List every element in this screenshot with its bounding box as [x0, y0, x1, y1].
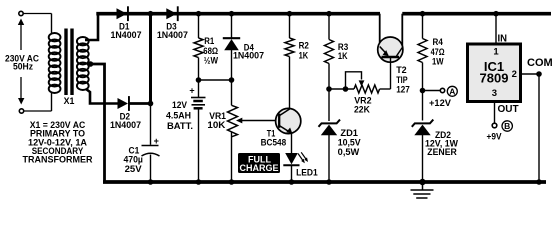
- svg-text:3: 3: [492, 88, 497, 99]
- svg-text:0,5W: 0,5W: [338, 147, 360, 157]
- svg-text:22K: 22K: [354, 104, 370, 114]
- svg-text:A: A: [449, 86, 455, 96]
- svg-text:+: +: [189, 86, 194, 96]
- svg-text:2: 2: [512, 69, 517, 80]
- svg-text:10K: 10K: [207, 120, 226, 130]
- svg-text:B: B: [504, 121, 510, 131]
- svg-text:4.5AH: 4.5AH: [166, 111, 191, 121]
- svg-text:1N4007: 1N4007: [111, 30, 142, 40]
- svg-text:½W: ½W: [204, 56, 219, 66]
- svg-text:TRANSFORMER: TRANSFORMER: [23, 155, 93, 165]
- svg-text:1W: 1W: [432, 57, 444, 67]
- svg-text:X1: X1: [64, 96, 75, 106]
- svg-text:CHARGE: CHARGE: [239, 163, 278, 173]
- svg-text:OUT: OUT: [498, 104, 519, 115]
- svg-text:12V: 12V: [172, 100, 187, 110]
- svg-text:1N4007: 1N4007: [233, 51, 264, 61]
- svg-text:1N4007: 1N4007: [110, 120, 141, 130]
- svg-text:+9V: +9V: [487, 131, 502, 141]
- svg-text:BATT.: BATT.: [167, 121, 193, 131]
- svg-text:7809: 7809: [480, 70, 509, 85]
- svg-text:R1: R1: [204, 36, 214, 46]
- svg-text:68Ω: 68Ω: [203, 46, 218, 56]
- svg-text:+: +: [154, 136, 159, 146]
- svg-text:47Ω: 47Ω: [431, 47, 445, 57]
- svg-text:10,5V: 10,5V: [338, 138, 361, 148]
- svg-text:ZENER: ZENER: [427, 147, 457, 157]
- svg-text:+12V: +12V: [429, 98, 451, 108]
- svg-text:T2: T2: [396, 65, 407, 75]
- svg-text:BC548: BC548: [261, 137, 287, 147]
- svg-text:TIP: TIP: [396, 75, 407, 85]
- svg-text:1K: 1K: [338, 51, 348, 61]
- svg-text:25V: 25V: [125, 164, 142, 174]
- svg-text:LED1: LED1: [296, 168, 318, 178]
- svg-text:ZD1: ZD1: [340, 128, 358, 138]
- svg-text:1: 1: [493, 47, 499, 58]
- svg-text:1K: 1K: [299, 50, 309, 60]
- svg-text:COM: COM: [527, 57, 553, 69]
- svg-text:IN: IN: [498, 34, 508, 45]
- svg-text:127: 127: [396, 84, 410, 94]
- svg-text:R4: R4: [433, 37, 443, 47]
- svg-text:50Hz: 50Hz: [13, 62, 33, 72]
- svg-text:R2: R2: [299, 41, 309, 51]
- svg-text:1N4007: 1N4007: [157, 30, 188, 40]
